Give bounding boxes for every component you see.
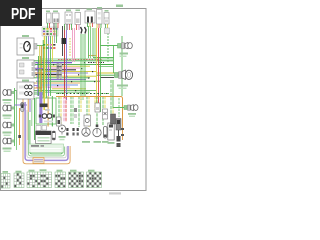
wire green vertical at box left [34, 98, 36, 140]
horn [59, 125, 66, 140]
left rear lamp 4 [3, 138, 15, 152]
wire green dashed right column [118, 98, 120, 117]
wire left lamp feeders [15, 82, 32, 150]
connector table 7 [87, 170, 102, 188]
inline diode blob [62, 38, 67, 44]
nested harness loop [23, 98, 70, 164]
connector gray bars mid [57, 63, 60, 79]
connector table 4 [38, 169, 52, 187]
wire vertical bundle left-center [45, 26, 125, 140]
rectifier [116, 119, 121, 148]
wire gauge stubs [34, 65, 43, 95]
regulator box [108, 123, 115, 144]
page border frame [1, 9, 147, 191]
wire red dashed row [58, 59, 102, 61]
svg-text:PDF: PDF [11, 6, 36, 23]
generator [82, 121, 90, 143]
CDI module top [97, 7, 103, 24]
wire verticals through CDI right [47, 96, 49, 126]
PDF badge [0, 0, 42, 26]
pin stubs under top boxes [48, 23, 110, 34]
wire trunk horizontal bundle [14, 59, 113, 92]
spark plug 2 [85, 27, 87, 34]
diode inline [103, 109, 108, 119]
wire orange short [88, 55, 97, 57]
front turn signal right [118, 43, 133, 58]
left turn signal lamp 2 [3, 105, 15, 119]
wire green vertical pair through trunk [38, 56, 40, 96]
battery [36, 131, 52, 144]
rear turn signal right [124, 105, 138, 117]
connector block under badge [42, 27, 58, 49]
connector stack A [66, 128, 68, 136]
wire feeder to rear turn signal [113, 80, 124, 108]
CDI sub connector 2 [42, 126, 47, 131]
ignition switch [21, 103, 24, 112]
handlebar switch right [65, 10, 72, 25]
footer watermark [109, 192, 121, 194]
connector table 5 [55, 170, 66, 188]
wire black dashed [88, 62, 104, 64]
wire vertical pairs lower center [59, 80, 113, 127]
odometer unit [17, 80, 34, 100]
harness legend striped bar [29, 144, 64, 153]
wire green feeder to turn signal [93, 46, 119, 78]
spark plug 1 [81, 27, 83, 34]
starter motor [93, 125, 101, 143]
ignition coil [85, 9, 95, 24]
handlebar switch left B [53, 11, 60, 24]
brake switch [75, 10, 81, 25]
relay top right [104, 10, 109, 24]
left turn signal lamp 1 [3, 90, 15, 104]
fuse [52, 131, 55, 140]
connector stack B [72, 128, 74, 136]
CDI sub connector 1 [36, 126, 41, 131]
legend box on loop [33, 158, 44, 164]
handlebar switch left A [46, 11, 51, 24]
page background [0, 0, 149, 198]
switch inline right column [95, 103, 100, 112]
connector stack C [77, 128, 79, 136]
inline fuse on lamp feeder [18, 135, 21, 138]
indicator lamp cluster [17, 57, 36, 78]
wire orange trunk upper [56, 97, 123, 127]
small box mid-left column [57, 117, 62, 126]
condenser [102, 127, 109, 143]
connector table 1 [1, 171, 10, 188]
wire junction dots [44, 60, 95, 91]
tiny marks near x74 [74, 108, 77, 118]
sheet label above border [116, 5, 123, 8]
speedometer [17, 35, 44, 55]
connector table 2 [14, 171, 24, 188]
connector table 6 [69, 170, 84, 188]
flasher relay [84, 115, 91, 126]
CDI unit box [36, 92, 56, 127]
headlight [115, 70, 133, 89]
sensor inline dark [111, 114, 116, 124]
connector table 3 [27, 170, 38, 188]
wire gauge-to-harness verticals [38, 40, 43, 98]
left rear lamp 3 [3, 122, 15, 136]
wire dashed multicolor row [56, 93, 110, 95]
